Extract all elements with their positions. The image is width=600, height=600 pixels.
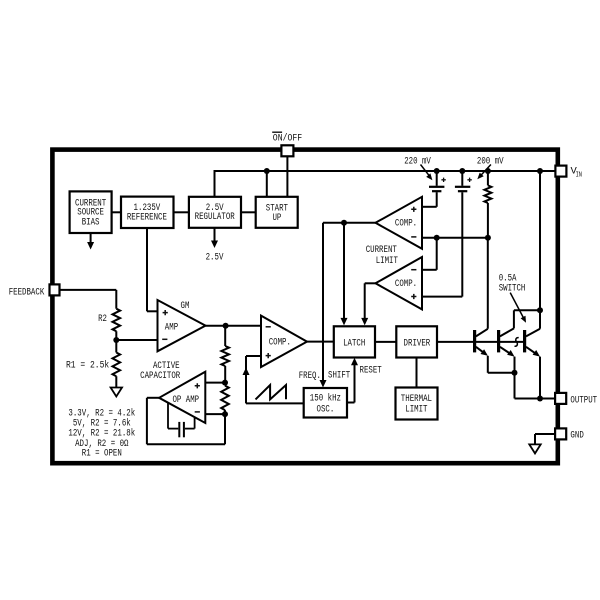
svg-text:GND: GND bbox=[570, 430, 583, 441]
wire osc reset to latch bbox=[347, 358, 358, 403]
node comp1 output junction bbox=[341, 220, 347, 226]
gm amp - marking bbox=[162, 338, 167, 340]
wire pwm + input bbox=[246, 356, 261, 403]
svg-text:AMP: AMP bbox=[165, 323, 178, 334]
wire Q3 collector to rail bbox=[539, 171, 541, 329]
wire bias to reference bbox=[112, 211, 121, 213]
label LATCH bbox=[343, 339, 365, 350]
svg-text:OSC.: OSC. bbox=[317, 405, 335, 416]
arrow 220mV pointer bbox=[421, 165, 433, 181]
svg-text:BIAS: BIAS bbox=[82, 217, 100, 228]
svg-text:LIMIT: LIMIT bbox=[376, 256, 398, 267]
comp1 - marking bbox=[411, 236, 416, 238]
wire gm output down bbox=[224, 326, 226, 346]
label 150 kHz OSC bbox=[310, 392, 341, 415]
op-amp PWM COMP bbox=[261, 316, 307, 367]
wire comp2 output bbox=[361, 283, 375, 325]
label 200 mV bbox=[477, 156, 504, 167]
label VIN bbox=[571, 166, 583, 180]
svg-text:SHIFT: SHIFT bbox=[328, 371, 350, 382]
svg-text:COMP.: COMP. bbox=[395, 279, 417, 290]
wire Q2 emitter bbox=[514, 357, 516, 399]
label RESET bbox=[360, 365, 382, 376]
svg-text:150 kHz: 150 kHz bbox=[310, 392, 341, 404]
pin VIN bbox=[555, 166, 566, 177]
label R2 value table bbox=[68, 408, 135, 460]
svg-text:REFERENCE: REFERENCE bbox=[127, 212, 167, 223]
block 2.5V regulator bbox=[189, 197, 241, 228]
label 1.235V reference bbox=[127, 203, 167, 223]
node collector junction bbox=[537, 307, 543, 313]
wire comp2 - input bbox=[422, 238, 437, 270]
node comp inputs junction bbox=[434, 235, 440, 241]
wire feedback to R2 bbox=[60, 290, 117, 309]
label DRIVER bbox=[404, 339, 431, 350]
wire sense resistor down bbox=[487, 203, 489, 238]
block 150kHz oscillator bbox=[304, 388, 347, 418]
wire comp1 + input bbox=[422, 192, 437, 207]
wire comp1 output bbox=[323, 222, 376, 224]
wire ON/OFF to start-up bbox=[286, 156, 288, 197]
squiggle on base wire bbox=[515, 338, 519, 347]
node emitter junction Q1Q2 bbox=[512, 370, 518, 376]
label FEEDBACK bbox=[9, 287, 45, 298]
resistor current sense bbox=[484, 171, 491, 203]
wire Q1 emitter bbox=[488, 356, 515, 373]
resistor R2 bbox=[113, 309, 121, 332]
wire gnd pin to ground bbox=[535, 434, 555, 444]
svg-text:COMP.: COMP. bbox=[395, 219, 417, 230]
op amp + marking bbox=[195, 383, 200, 388]
comp2 - marking bbox=[411, 269, 416, 271]
block start-up bbox=[256, 197, 298, 228]
label 0.5A SWITCH bbox=[499, 273, 526, 294]
resistor R1 bbox=[113, 353, 121, 377]
wire pwm output to latch bbox=[307, 341, 334, 343]
battery1 + marking bbox=[441, 178, 445, 182]
transistor Q2 bbox=[499, 328, 515, 356]
wire reference to regulator bbox=[174, 211, 189, 213]
wire op amp feedback loop bbox=[147, 398, 225, 445]
svg-text:12V, R2 = 21.8k: 12V, R2 = 21.8k bbox=[68, 428, 135, 440]
sawtooth waveform bbox=[256, 385, 287, 399]
gm amp + marking bbox=[163, 310, 168, 315]
wire driver to thermal limit bbox=[416, 358, 418, 388]
label 2.5V regulator bbox=[195, 203, 235, 223]
wire VIN rail bbox=[215, 170, 557, 172]
battery 200mV bbox=[455, 171, 470, 191]
wire comp1 to latch bbox=[341, 223, 348, 326]
node sense junction lower bbox=[485, 235, 491, 241]
svg-text:LATCH: LATCH bbox=[343, 339, 365, 350]
node gm output junction bbox=[223, 323, 229, 329]
svg-text:GM: GM bbox=[181, 301, 190, 312]
wire reference to gm amp + bbox=[147, 228, 158, 311]
svg-text:UP: UP bbox=[272, 213, 281, 224]
wire junction to R1 bbox=[115, 340, 117, 353]
arrow switch pointer bbox=[510, 293, 526, 323]
arrow 2.5V output bbox=[206, 228, 224, 264]
block thermal limit bbox=[396, 388, 438, 420]
label AMP bbox=[165, 323, 178, 334]
op-amp OP AMP bbox=[159, 372, 205, 423]
wire comp1 - input bbox=[422, 237, 488, 239]
pin GND bbox=[555, 428, 566, 439]
node sense resistor junction bbox=[485, 168, 491, 174]
op-amp GM AMP bbox=[158, 300, 206, 351]
wire osc to pwm bbox=[246, 402, 304, 404]
svg-text:OP AMP: OP AMP bbox=[172, 395, 199, 406]
block current source bias bbox=[70, 191, 112, 233]
label R2 bbox=[98, 314, 107, 325]
label 220 mV bbox=[404, 156, 431, 167]
wire driver to bases bbox=[437, 341, 525, 343]
block 1.235V reference bbox=[121, 197, 174, 228]
svg-text:RESET: RESET bbox=[360, 365, 382, 376]
label COMP (cl2) bbox=[395, 279, 417, 290]
svg-text:OUTPUT: OUTPUT bbox=[570, 395, 597, 406]
wire latch to driver bbox=[375, 341, 396, 343]
wire to op amp + node bbox=[224, 366, 226, 383]
svg-text:REGULATOR: REGULATOR bbox=[195, 212, 235, 223]
battery 220mV bbox=[429, 171, 444, 191]
block latch bbox=[334, 326, 375, 357]
wire op amp - input bbox=[205, 413, 225, 415]
arrow below current source bias bbox=[87, 233, 94, 250]
arrow 200mV pointer bbox=[477, 165, 491, 180]
label ACTIVE CAPACITOR bbox=[140, 361, 180, 382]
svg-text:THERMAL: THERMAL bbox=[401, 394, 432, 405]
wire divider to gm amp - bbox=[116, 339, 157, 341]
wire comp2 + input bbox=[422, 192, 462, 296]
block driver bbox=[396, 326, 437, 357]
label R1 = 2.5k bbox=[66, 359, 109, 371]
node op amp - junction bbox=[222, 411, 228, 417]
pin FEEDBACK bbox=[50, 284, 60, 295]
resistor compensation lower bbox=[221, 386, 229, 411]
resistor compensation upper bbox=[221, 346, 229, 366]
svg-text:COMP.: COMP. bbox=[269, 338, 291, 349]
svg-text:FEEDBACK: FEEDBACK bbox=[9, 287, 45, 298]
svg-text:IN: IN bbox=[576, 171, 582, 179]
wire freq shift bbox=[320, 223, 327, 388]
svg-text:DRIVER: DRIVER bbox=[404, 339, 431, 350]
ground below R1 bbox=[111, 388, 122, 397]
pwm comp - marking bbox=[266, 326, 271, 328]
label COMP (pwm) bbox=[269, 338, 291, 349]
wire R2 to junction bbox=[115, 331, 117, 340]
wire rail to 2.5V regulator bbox=[214, 170, 216, 197]
label COMP (cl1) bbox=[395, 219, 417, 230]
svg-text:220 mV: 220 mV bbox=[404, 156, 431, 167]
node start-up supply junction bbox=[264, 168, 270, 174]
svg-text:R1 = 2.5k: R1 = 2.5k bbox=[66, 359, 109, 371]
op-amp current limit COMP 1 bbox=[376, 197, 423, 249]
svg-text:SWITCH: SWITCH bbox=[499, 283, 526, 294]
pin ON/OFF bbox=[281, 145, 293, 156]
IC boundary box bbox=[52, 150, 557, 464]
label GM bbox=[181, 301, 190, 312]
node rail switch junction bbox=[537, 168, 543, 174]
label OP AMP bbox=[172, 395, 199, 406]
label THERMAL LIMIT bbox=[401, 394, 432, 416]
wire R1 to ground bbox=[115, 376, 117, 387]
wire junction to start-up bbox=[266, 171, 268, 197]
svg-text:ON/OFF: ON/OFF bbox=[273, 132, 302, 144]
comp1 + marking bbox=[411, 207, 416, 212]
label GND bbox=[570, 430, 583, 441]
label FREQ SHIFT bbox=[299, 371, 351, 382]
arrow into pwm + input bbox=[243, 368, 250, 376]
svg-text:R2: R2 bbox=[98, 314, 107, 325]
svg-text:2.5V: 2.5V bbox=[206, 253, 224, 264]
node op amp + junction bbox=[222, 380, 228, 386]
svg-text:FREQ.: FREQ. bbox=[299, 371, 321, 382]
label ON/OFF bbox=[272, 132, 302, 144]
op amp - marking bbox=[195, 411, 200, 413]
pwm comp + marking bbox=[266, 353, 271, 358]
op-amp current limit COMP 2 bbox=[376, 257, 423, 309]
wire op amp + input bbox=[205, 382, 225, 384]
node battery2 junction bbox=[459, 168, 465, 174]
node divider junction bbox=[113, 337, 119, 343]
svg-text:CAPACITOR: CAPACITOR bbox=[140, 371, 180, 382]
svg-text:CURRENT: CURRENT bbox=[366, 245, 397, 256]
wire gm amp output bbox=[206, 325, 262, 327]
label CURRENT LIMIT bbox=[366, 245, 398, 267]
wire Q1 collector bbox=[487, 238, 489, 329]
pin OUTPUT bbox=[555, 393, 566, 404]
label start-up bbox=[266, 203, 288, 224]
label current source bias bbox=[75, 198, 106, 228]
node battery1 junction bbox=[434, 168, 440, 174]
ground symbol at GND pin bbox=[529, 444, 540, 453]
svg-text:R1 = OPEN: R1 = OPEN bbox=[82, 449, 122, 460]
label OUTPUT bbox=[570, 395, 597, 406]
node output junction bbox=[537, 396, 543, 402]
svg-text:LIMIT: LIMIT bbox=[405, 405, 427, 416]
wire Q3 emitter bbox=[539, 357, 541, 399]
wire Q2 collector bbox=[514, 310, 540, 328]
capacitor active bbox=[168, 403, 195, 438]
battery2 + marking bbox=[467, 178, 471, 182]
comp2 + marking bbox=[411, 294, 416, 299]
wire to op amp - node bbox=[224, 383, 226, 415]
transistor Q1 bbox=[475, 329, 488, 356]
transistor Q3 bbox=[525, 329, 540, 357]
wire regulator to start-up bbox=[241, 211, 256, 213]
wire emitters to output bbox=[515, 398, 556, 400]
